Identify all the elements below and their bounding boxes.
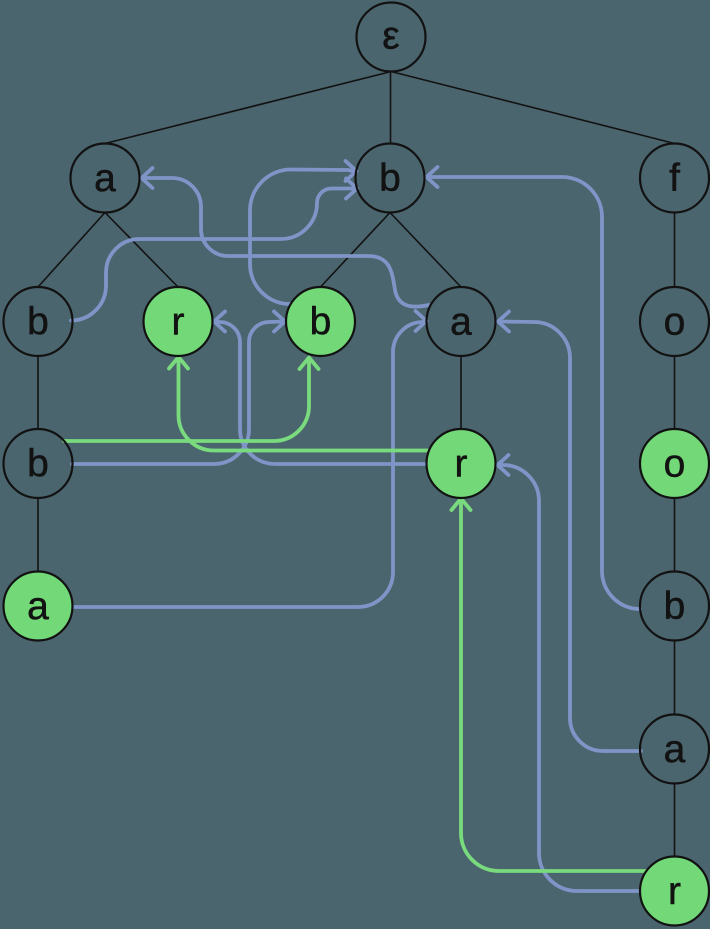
svg-text:b: b <box>664 585 686 628</box>
svg-text:o: o <box>664 301 686 344</box>
svg-text:f: f <box>669 157 680 200</box>
svg-text:ε: ε <box>382 15 399 58</box>
svg-text:r: r <box>668 870 681 913</box>
svg-text:b: b <box>310 301 332 344</box>
svg-text:b: b <box>27 443 49 486</box>
svg-text:a: a <box>27 585 49 628</box>
svg-text:r: r <box>455 443 468 486</box>
svg-text:b: b <box>379 157 401 200</box>
svg-text:a: a <box>450 301 472 344</box>
svg-text:o: o <box>664 443 686 486</box>
svg-text:b: b <box>27 301 49 344</box>
svg-text:r: r <box>172 301 185 344</box>
svg-text:a: a <box>664 728 686 771</box>
svg-text:a: a <box>94 157 116 200</box>
